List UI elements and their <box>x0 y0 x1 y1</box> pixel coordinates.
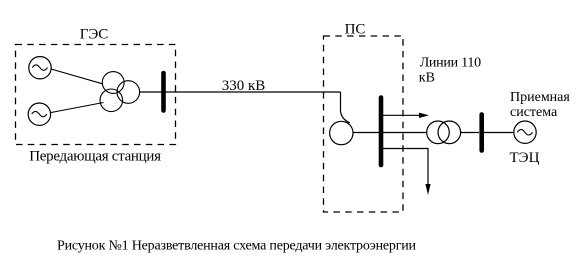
svg-text:Приемная: Приемная <box>510 90 570 105</box>
dashed box GES <box>16 45 176 145</box>
svg-text:ПС: ПС <box>345 22 366 38</box>
busbar B2 <box>379 98 384 166</box>
svg-text:330 кВ: 330 кВ <box>222 78 266 94</box>
transformer T2 (two-winding) <box>427 121 461 144</box>
svg-text:Рисунок №1 Неразветвленная схе: Рисунок №1 Неразветвленная схема передач… <box>57 239 417 254</box>
wire T2 to busbar B3 <box>461 132 479 134</box>
transformer U1 in PS <box>330 121 353 144</box>
svg-text:Линии 110: Линии 110 <box>420 56 481 71</box>
wire main 330kV line <box>139 91 341 93</box>
busbar B1 <box>161 73 166 111</box>
wire elbow down into PS <box>341 92 351 123</box>
wire G2 to T1 <box>49 103 104 114</box>
generator G2 <box>28 103 50 125</box>
dashed box PS <box>324 36 404 212</box>
svg-text:система: система <box>510 105 558 120</box>
svg-text:Передающая станция: Передающая станция <box>29 149 161 165</box>
generator G1 <box>29 56 51 78</box>
svg-text:кВ: кВ <box>419 71 435 86</box>
receiving system G3 <box>514 121 536 143</box>
wire 110kV line with right arrow <box>383 114 426 116</box>
transformer T1 (three-winding) <box>100 72 140 112</box>
wire down line with arrow <box>383 149 428 189</box>
wire G1 to T1 <box>48 68 103 84</box>
svg-text:ГЭС: ГЭС <box>80 27 109 43</box>
svg-text:ТЭЦ: ТЭЦ <box>510 150 540 166</box>
busbar B3 <box>479 115 484 151</box>
wire U1 to busbar B2 and on to T2 <box>353 132 427 134</box>
wire busbar B3 to receiving system <box>484 132 514 134</box>
